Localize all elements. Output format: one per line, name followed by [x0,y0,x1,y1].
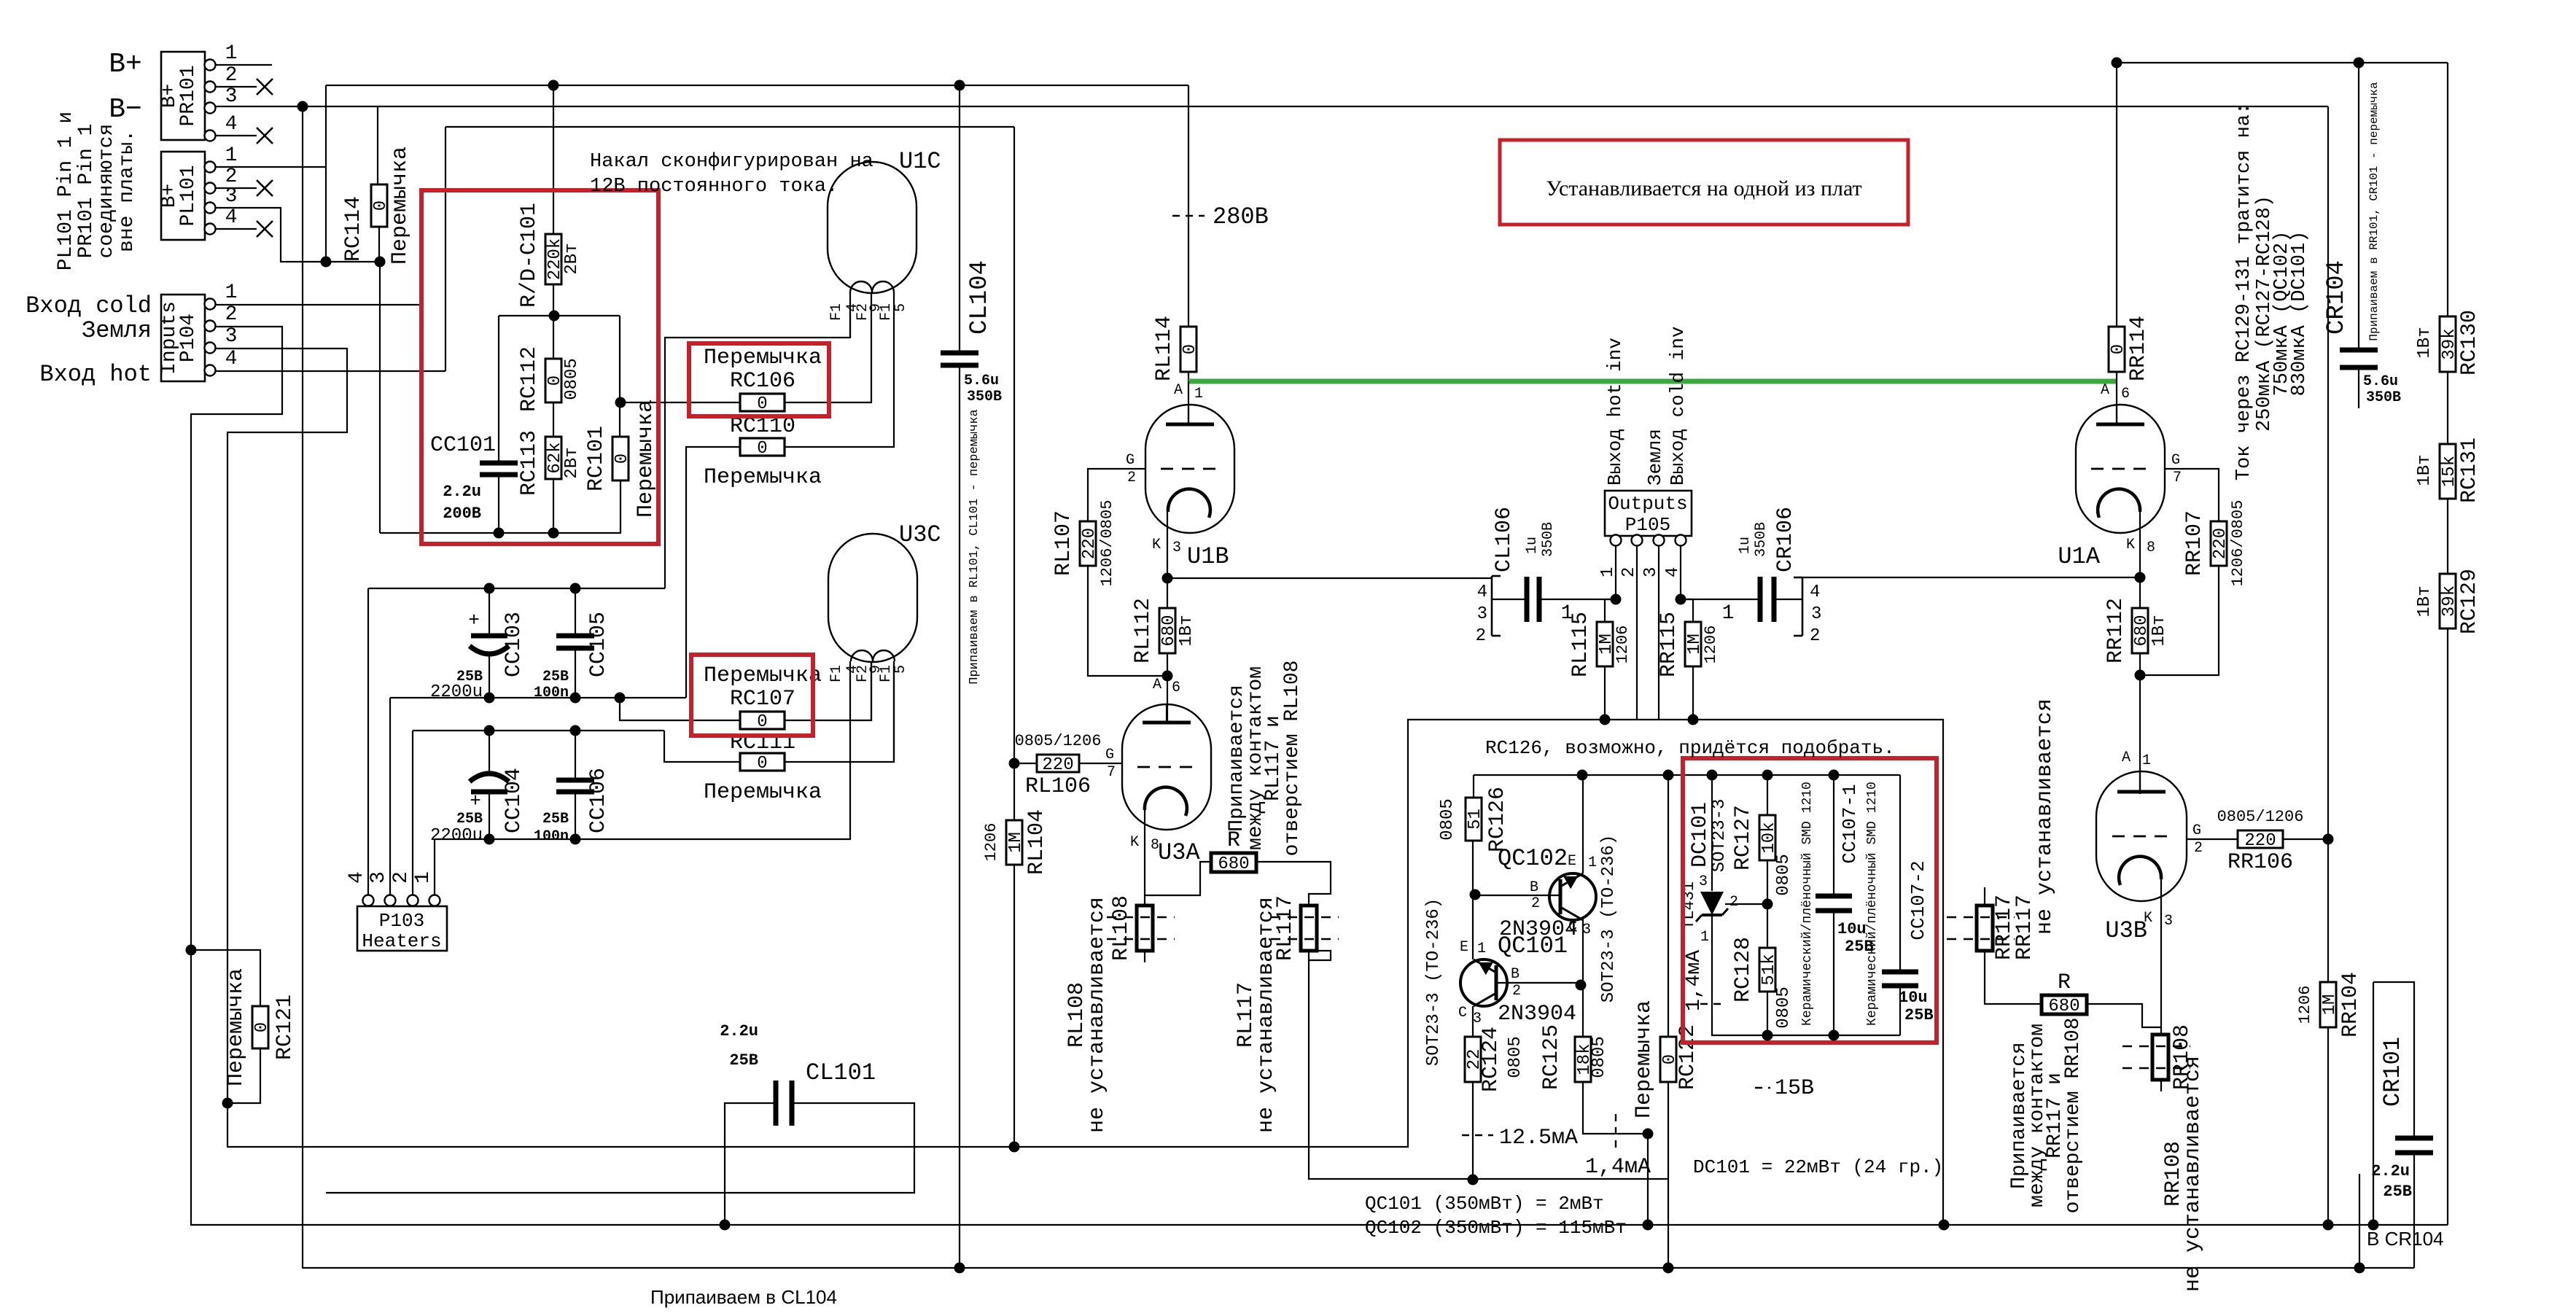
svg-text:CC104: CC104 [502,768,526,833]
svg-text:4: 4 [225,348,238,370]
svg-text:Земля: Земля [82,317,152,344]
svg-text:39k: 39k [2440,328,2459,359]
svg-text:RC126: RC126 [1485,787,1510,852]
svg-text:0805/1206: 0805/1206 [1015,732,1102,750]
svg-text:PL101 Pin 1 и: PL101 Pin 1 и [55,112,77,270]
svg-text:PR101 Pin 1: PR101 Pin 1 [75,124,98,259]
svg-text:1: 1 [225,42,238,65]
svg-text:2: 2 [1729,894,1738,911]
svg-text:Вход hot: Вход hot [39,361,152,388]
svg-text:R/D-C101: R/D-C101 [517,203,542,308]
svg-text:RC121: RC121 [273,994,297,1060]
svg-text:2200u: 2200u [430,682,483,702]
svg-text:6: 6 [1172,680,1180,696]
svg-text:0: 0 [612,453,632,464]
svg-text:1Вт: 1Вт [1177,615,1196,646]
svg-text:CL104: CL104 [966,260,994,335]
svg-text:6: 6 [2121,386,2130,402]
svg-text:CC103: CC103 [502,612,526,677]
svg-text:0805: 0805 [1589,1036,1609,1078]
svg-text:U3C: U3C [899,521,941,548]
svg-text:0: 0 [757,712,767,732]
svg-text:Перемычка: Перемычка [1632,1000,1657,1118]
svg-text:4: 4 [225,113,238,136]
svg-text:25В: 25В [729,1051,758,1070]
svg-text:CC106: CC106 [586,768,611,833]
svg-text:В CR104: В CR104 [2367,1228,2444,1250]
svg-text:1: 1 [225,144,238,167]
svg-text:CC105: CC105 [586,612,611,677]
svg-text:CC101: CC101 [430,433,496,458]
svg-text:CR106: CR106 [1773,507,1798,572]
svg-text:5.6u: 5.6u [2363,373,2398,390]
svg-text:8: 8 [2147,540,2155,556]
svg-text:25В: 25В [542,669,569,685]
svg-text:1: 1 [1722,602,1735,625]
svg-text:отверстием RL108: отверстием RL108 [1281,661,1304,857]
svg-text:1M: 1M [1006,832,1026,853]
svg-text:1: 1 [1561,602,1573,625]
svg-text:1: 1 [412,871,435,884]
svg-text:E: E [1568,853,1576,870]
svg-text:1: 1 [1588,854,1597,871]
svg-text:0: 0 [757,439,767,459]
svg-text:RR112: RR112 [2104,598,2128,663]
svg-text:3: 3 [225,185,238,208]
svg-text:QC101 (350мВт) = 2мВт: QC101 (350мВт) = 2мВт [1365,1193,1604,1215]
svg-text:280В: 280В [1213,203,1269,230]
svg-text:U1A: U1A [2058,543,2100,570]
svg-text:RC101: RC101 [584,426,609,491]
svg-text:10u: 10u [1899,989,1928,1007]
svg-text:не устанавливается: не устанавливается [1254,897,1279,1133]
svg-text:220: 220 [1042,755,1073,775]
svg-text:2Вт: 2Вт [562,243,582,274]
svg-text:0: 0 [2109,344,2128,354]
svg-text:U3A: U3A [1158,839,1200,866]
svg-text:Керамический/плёночный SMD 121: Керамический/плёночный SMD 1210 [1800,782,1815,1026]
svg-text:Припаиваем в RL101, CL101 - пе: Припаиваем в RL101, CL101 - перемычка [968,409,981,684]
svg-text:2: 2 [2194,840,2203,857]
svg-text:680: 680 [1218,854,1249,874]
svg-text:SOT23-3 (TO-236): SOT23-3 (TO-236) [1599,835,1619,1002]
svg-text:F1: F1 [828,303,845,321]
svg-text:0805: 0805 [562,358,582,400]
svg-text:350В: 350В [1753,522,1770,557]
svg-text:220: 220 [2244,831,2276,851]
svg-text:CR101: CR101 [2379,1037,2406,1107]
svg-text:Припаиваем в RR101, CR101 - пе: Припаиваем в RR101, CR101 - перемычка [2367,82,2381,341]
svg-text:8: 8 [1151,837,1159,854]
svg-text:4: 4 [1477,583,1487,602]
svg-text:350В: 350В [1540,522,1557,557]
svg-text:1206: 1206 [982,823,1000,862]
svg-text:CL106: CL106 [1492,507,1517,572]
svg-text:0805: 0805 [1506,1036,1525,1078]
svg-text:15В: 15В [1775,1076,1814,1101]
svg-text:K: K [2144,910,2152,927]
svg-text:3: 3 [367,871,390,884]
svg-text:CR104: CR104 [2323,260,2351,335]
svg-text:1M: 1M [2320,994,2340,1016]
svg-text:SOT23-3 (TO-236): SOT23-3 (TO-236) [1424,898,1444,1066]
svg-text:B: B [1530,879,1538,896]
svg-text:5: 5 [892,665,909,674]
svg-text:0: 0 [252,1022,272,1032]
svg-text:RC113: RC113 [517,430,542,496]
svg-text:Выход cold inv: Выход cold inv [1667,327,1689,486]
svg-text:RR107: RR107 [2182,510,2207,576]
svg-text:соединяются: соединяются [96,124,118,259]
svg-text:QC102 (350мВт) = 115мВт: QC102 (350мВт) = 115мВт [1365,1217,1627,1239]
svg-text:K: K [1130,834,1139,851]
svg-text:3: 3 [225,85,238,108]
svg-text:R: R [2058,970,2071,995]
svg-text:PL101: PL101 [177,165,200,226]
svg-text:Heaters: Heaters [362,930,441,952]
svg-text:+: + [470,790,481,812]
svg-text:+: + [468,610,480,631]
svg-text:U1B: U1B [1187,543,1229,570]
svg-text:0: 0 [757,394,767,414]
svg-text:Перемычка: Перемычка [704,663,822,688]
svg-text:220: 220 [2211,528,2230,559]
svg-text:RC126, возможно, придётся подо: RC126, возможно, придётся подобрать. [1485,737,1895,759]
svg-text:2: 2 [225,64,238,87]
svg-text:2.2u: 2.2u [2371,1162,2410,1180]
svg-text:RL114: RL114 [1152,316,1177,381]
svg-text:E: E [1460,939,1468,956]
svg-text:3: 3 [1811,604,1821,624]
svg-text:DC101 = 22мВт (24 гр.): DC101 = 22мВт (24 гр.) [1693,1156,1943,1178]
svg-text:F1: F1 [828,665,845,682]
svg-text:1u: 1u [1524,537,1541,554]
svg-text:C: C [1568,919,1577,935]
svg-text:3: 3 [2164,913,2173,930]
svg-text:RC122: RC122 [1676,1024,1700,1090]
svg-text:RR104: RR104 [2338,972,2363,1037]
svg-text:RL112: RL112 [1131,598,1156,663]
svg-text:25В: 25В [2383,1183,2412,1201]
svg-text:RC124: RC124 [1479,1027,1503,1092]
svg-text:K: K [1152,537,1161,553]
svg-text:1u: 1u [1737,537,1754,554]
svg-text:2.2u: 2.2u [720,1022,758,1040]
svg-text:10u: 10u [1837,920,1867,938]
svg-text:2: 2 [390,871,413,884]
svg-text:Накал сконфигурирован на: Накал сконфигурирован на [590,151,873,173]
svg-text:Outputs: Outputs [1608,493,1687,515]
svg-text:RR114: RR114 [2126,316,2151,381]
svg-text:1206/0805: 1206/0805 [1098,500,1116,587]
svg-text:1: 1 [1598,567,1618,577]
svg-text:CC107-2: CC107-2 [1907,860,1929,940]
svg-text:2: 2 [1810,626,1820,646]
svg-text:B−: B− [109,94,142,125]
svg-text:вне платы.: вне платы. [116,130,139,252]
svg-text:U3B: U3B [2105,917,2147,944]
svg-text:680: 680 [2132,615,2152,646]
svg-text:Перемычка: Перемычка [704,780,822,805]
svg-text:2200u: 2200u [430,826,483,846]
svg-text:RC127: RC127 [1731,805,1756,871]
svg-text:1: 1 [1700,929,1709,946]
svg-text:2: 2 [1619,567,1639,577]
svg-text:51k: 51k [1759,954,1779,985]
svg-text:3: 3 [1473,1011,1482,1027]
svg-text:1Вт: 1Вт [2415,454,2435,486]
svg-text:3: 3 [1582,922,1591,938]
svg-text:2: 2 [1531,895,1540,912]
svg-text:Устанавливается на одной из пл: Устанавливается на одной из плат [1546,176,1861,200]
svg-text:3: 3 [1641,567,1661,577]
svg-text:2: 2 [1512,983,1521,1000]
svg-text:C: C [1458,1005,1467,1021]
svg-text:1,4мА: 1,4мА [1585,1155,1651,1180]
svg-text:25В: 25В [1904,1006,1934,1024]
svg-text:0: 0 [1180,344,1200,354]
svg-text:4: 4 [1810,583,1820,602]
svg-text:A: A [1174,382,1183,399]
svg-text:4: 4 [346,871,368,884]
svg-text:3: 3 [1699,873,1708,890]
svg-text:7: 7 [2173,470,2182,486]
svg-text:680: 680 [2048,997,2079,1016]
svg-text:1206/0805: 1206/0805 [2229,500,2247,587]
svg-text:1: 1 [2142,752,2151,769]
svg-text:CC107-1: CC107-1 [1839,784,1861,863]
svg-text:39k: 39k [2440,585,2459,617]
svg-text:2: 2 [225,303,238,326]
svg-text:QC102: QC102 [1498,845,1568,872]
svg-text:5: 5 [892,303,909,312]
svg-text:3: 3 [225,325,238,348]
svg-text:1: 1 [225,281,238,304]
svg-text:12.5мА: 12.5мА [1499,1126,1578,1150]
svg-text:не устанавливается: не устанавливается [2033,698,2058,935]
svg-text:1,4мА: 1,4мА [1683,950,1705,1011]
svg-text:RC130: RC130 [2457,310,2482,375]
svg-text:Перемычка: Перемычка [388,147,413,265]
svg-text:1206: 1206 [2296,986,2314,1024]
svg-text:15k: 15k [2440,456,2459,487]
svg-text:220: 220 [1080,528,1100,559]
svg-text:G: G [2171,452,2180,469]
svg-text:4: 4 [225,206,238,229]
svg-text:A: A [2101,382,2109,399]
svg-text:51: 51 [1466,809,1485,830]
svg-text:1206: 1206 [1614,626,1632,664]
svg-text:1: 1 [1194,386,1203,402]
svg-text:RL104: RL104 [1024,809,1049,875]
svg-text:RC125: RC125 [1539,1024,1564,1090]
svg-text:RC128: RC128 [1731,937,1756,1002]
svg-text:B+: B+ [109,49,142,80]
svg-text:Керамический/плёночный SMD 121: Керамический/плёночный SMD 1210 [1865,782,1880,1026]
svg-text:Перемычка: Перемычка [224,968,249,1086]
svg-text:RC106: RC106 [730,369,795,394]
svg-text:P104: P104 [177,314,200,362]
svg-text:RL108: RL108 [1109,895,1134,961]
svg-text:1Вт: 1Вт [2149,615,2169,646]
svg-text:12В постоянного тока.: 12В постоянного тока. [590,176,838,198]
svg-text:1Вт: 1Вт [2415,585,2435,617]
svg-text:200В: 200В [443,505,481,523]
svg-text:Вход cold: Вход cold [26,292,152,319]
svg-text:RR106: RR106 [2227,850,2293,875]
svg-text:RC129: RC129 [2457,569,2482,634]
svg-text:25В: 25В [456,811,483,828]
svg-text:не устанавливается: не устанавливается [2181,1056,2206,1292]
svg-text:K: K [2126,537,2135,553]
svg-text:G: G [1105,747,1114,763]
svg-text:0805: 0805 [1774,986,1794,1029]
svg-text:5.6u: 5.6u [964,373,999,389]
svg-text:U1C: U1C [899,148,941,175]
svg-text:7: 7 [1107,764,1116,781]
svg-text:2Вт: 2Вт [562,447,582,478]
svg-text:RC131: RC131 [2457,437,2482,503]
svg-text:Выход hot inv: Выход hot inv [1604,338,1626,486]
svg-text:2N3904: 2N3904 [1498,1002,1576,1027]
svg-text:680: 680 [1159,615,1179,646]
svg-text:0805/1206: 0805/1206 [2217,808,2304,826]
svg-text:B: B [1511,966,1519,983]
svg-text:25В: 25В [542,811,569,828]
svg-text:отверстием RR108: отверстием RR108 [2062,1018,2085,1214]
svg-text:Ток через RC129-131 тратится н: Ток через RC129-131 тратится на: [2233,103,2255,480]
svg-text:RL107: RL107 [1051,510,1076,576]
svg-text:SOT23-3: SOT23-3 [1710,799,1729,873]
svg-text:RR115: RR115 [1657,612,1681,677]
svg-text:Земля: Земля [1644,429,1666,486]
svg-text:2: 2 [1127,470,1136,486]
svg-text:2.2u: 2.2u [443,483,481,501]
svg-text:0805: 0805 [1438,798,1458,841]
svg-text:2: 2 [1476,626,1486,646]
svg-text:Перемычка: Перемычка [634,400,658,518]
svg-text:RC112: RC112 [517,346,542,412]
svg-text:RC114: RC114 [341,196,366,262]
svg-text:RL106: RL106 [1025,774,1091,799]
svg-text:P103: P103 [379,910,424,932]
svg-text:100n: 100n [534,685,569,701]
svg-text:3: 3 [1477,604,1487,624]
svg-text:PR101: PR101 [177,65,200,126]
svg-text:P105: P105 [1625,514,1670,536]
svg-text:G: G [1126,452,1135,469]
svg-text:4: 4 [1663,567,1683,577]
svg-text:не устанавливается: не устанавливается [1085,897,1110,1133]
svg-text:Припаиваем в CL104: Припаиваем в CL104 [650,1286,837,1308]
svg-text:350В: 350В [967,389,1002,405]
svg-text:Перемычка: Перемычка [704,346,822,370]
svg-text:100n: 100n [534,828,569,845]
svg-text:G: G [2192,822,2201,839]
svg-text:A: A [2122,750,2131,766]
svg-text:Перемычка: Перемычка [704,465,822,490]
svg-text:1Вт: 1Вт [2415,327,2435,358]
svg-text:DC101: DC101 [1688,802,1713,868]
svg-text:3: 3 [1172,540,1181,556]
svg-text:0: 0 [757,754,767,774]
svg-text:1206: 1206 [1702,626,1720,664]
svg-text:QC101: QC101 [1498,933,1568,959]
svg-text:RC107: RC107 [730,687,795,712]
svg-text:0805: 0805 [1774,854,1794,896]
svg-text:350В: 350В [2366,389,2401,406]
svg-text:830мкА (DC101): 830мкА (DC101) [2289,231,2311,397]
svg-text:A: A [1153,677,1161,693]
svg-text:1: 1 [1477,941,1486,957]
svg-text:10k: 10k [1759,822,1779,853]
svg-text:CL101: CL101 [806,1059,876,1086]
